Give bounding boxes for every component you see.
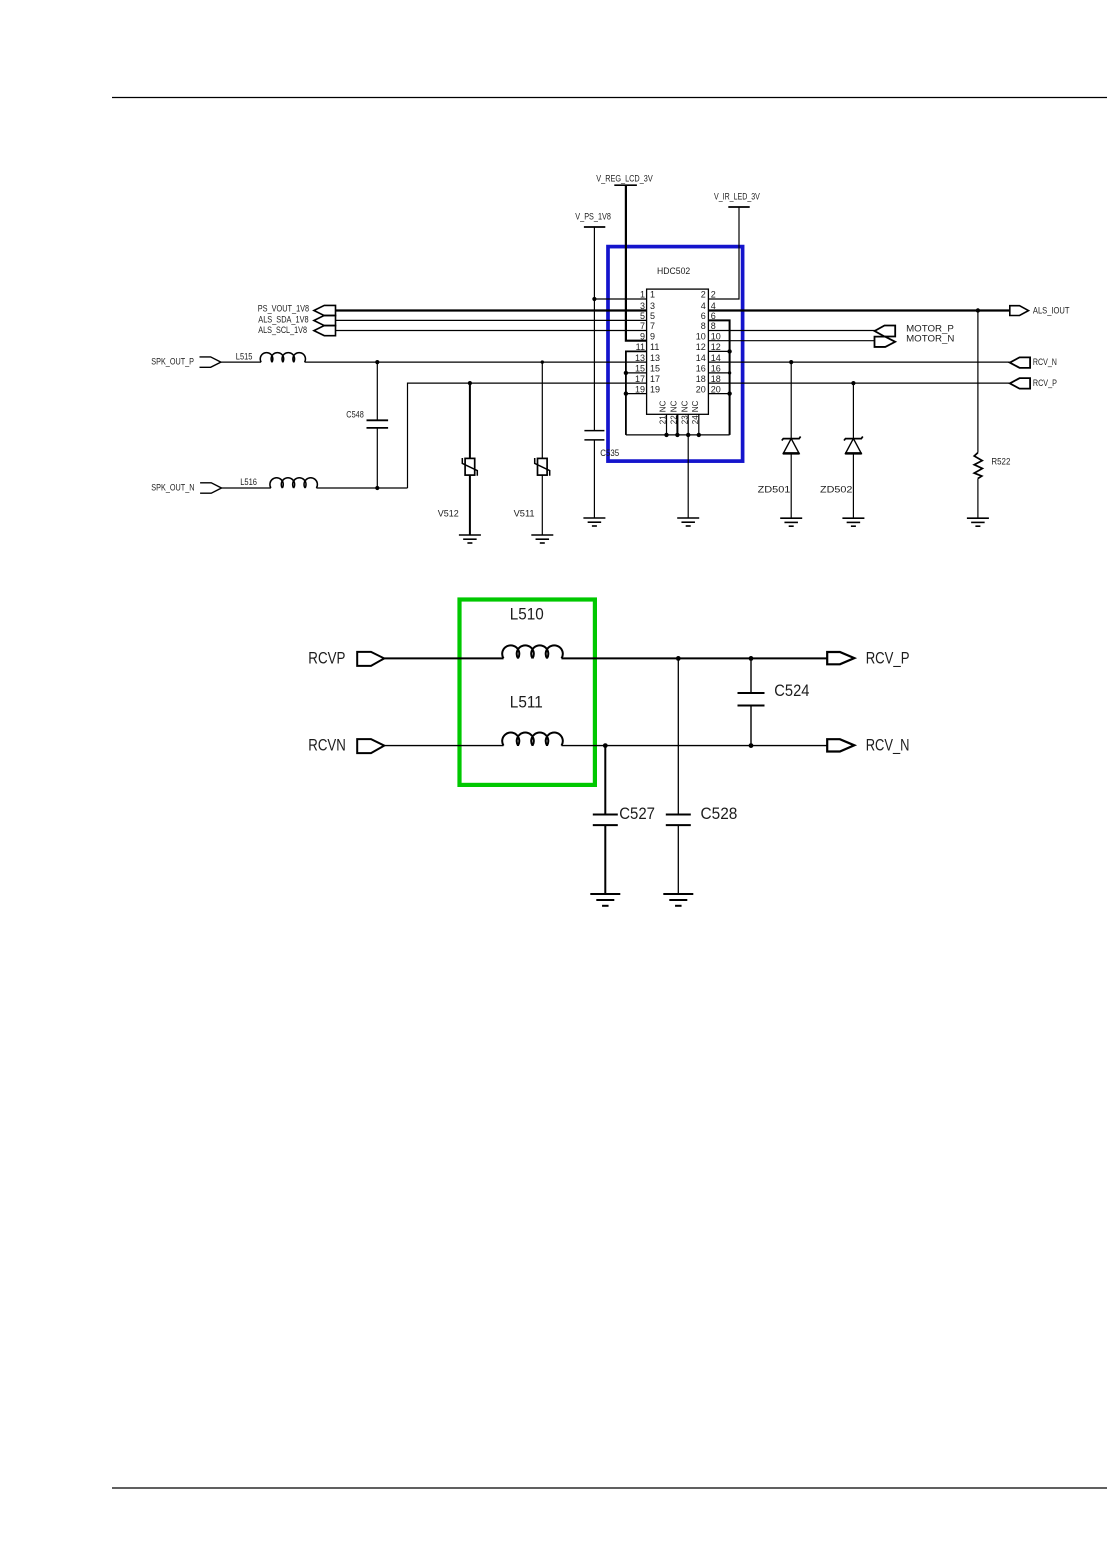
svg-text:NC: NC [691, 400, 700, 412]
svg-text:C527: C527 [619, 805, 655, 823]
svg-text:RCV_P: RCV_P [866, 649, 910, 667]
junction pin 20 / right bus [727, 391, 731, 395]
wire V_IR_LED_3V to pin 2 [708, 207, 739, 299]
svg-text:2: 2 [711, 290, 716, 300]
capacitor C528 plates [666, 814, 691, 816]
svg-text:12: 12 [711, 342, 721, 352]
svg-text:NC: NC [680, 400, 689, 412]
svg-text:17: 17 [650, 374, 660, 384]
svg-text:15: 15 [635, 364, 645, 374]
svg-text:V511: V511 [514, 508, 535, 518]
ground under V511 [531, 534, 553, 536]
blue highlight box around HDC502 [608, 247, 743, 462]
junction pin 22 / bus [675, 433, 679, 437]
svg-text:ALS_SDA_1V8: ALS_SDA_1V8 [258, 315, 308, 325]
ground under C527 [590, 893, 620, 895]
wire V_REG_LCD_3V to pin 9 (thick) [626, 185, 647, 341]
svg-text:ALS_IOUT: ALS_IOUT [1033, 306, 1070, 316]
svg-text:17: 17 [635, 374, 645, 384]
svg-text:13: 13 [650, 353, 660, 363]
port SPK_OUT_N arrow [200, 483, 221, 493]
capacitor C548 top lead [376, 362, 378, 420]
wire RCVP to L510 [384, 657, 503, 659]
junction RCV_N / ZD501 [789, 360, 793, 364]
wire pin 20 to right bus [708, 393, 729, 395]
svg-text:10: 10 [711, 331, 721, 341]
svg-text:16: 16 [711, 364, 721, 374]
svg-text:L510: L510 [510, 606, 544, 624]
svg-text:9: 9 [640, 331, 645, 341]
wire L511 to RCV_N [562, 745, 828, 747]
port RCV_N arrow (top) [1010, 357, 1030, 368]
svg-text:V512: V512 [438, 508, 459, 518]
junction RCVN / C524 [749, 743, 754, 748]
svg-text:C528: C528 [701, 805, 738, 823]
capacitor C524 plates [738, 692, 765, 694]
svg-text:7: 7 [640, 321, 645, 331]
capacitor C535 bottom lead [593, 440, 595, 518]
wire L510 to RCV_P [562, 657, 828, 659]
svg-text:5: 5 [640, 311, 645, 321]
wire pin 21 stub [666, 414, 668, 435]
svg-text:L516: L516 [240, 477, 257, 487]
capacitor C535 plates [584, 430, 604, 432]
junction SPK_OUT_N / C548 [375, 486, 379, 490]
wire L516 to elbow [316, 487, 407, 489]
port RCVN arrow [357, 739, 384, 753]
zener diode ZD502 [844, 437, 863, 441]
svg-text:L515: L515 [236, 351, 253, 361]
svg-text:8: 8 [711, 321, 716, 331]
inductor L515 [260, 353, 305, 362]
svg-text:20: 20 [711, 384, 721, 394]
capacitor C528 top lead [677, 658, 679, 814]
port ALS_SDA_1V8 arrow [314, 315, 336, 325]
varistor V511 [538, 458, 548, 475]
svg-text:2: 2 [701, 290, 706, 300]
capacitor C528 bottom lead [677, 825, 679, 894]
ground under IC [677, 517, 699, 519]
svg-text:6: 6 [701, 311, 706, 321]
svg-text:4: 4 [701, 301, 706, 311]
ground under V512 [459, 534, 481, 536]
resistor R522 top lead [977, 311, 979, 453]
capacitor C527 top lead [604, 746, 606, 815]
varistor V512 bottom lead [469, 475, 471, 535]
junction pin 21 / bus [664, 433, 668, 437]
ground under C528 [663, 893, 693, 895]
svg-text:RCVP: RCVP [308, 649, 345, 667]
svg-text:15: 15 [650, 364, 660, 374]
junction pin 16 / right bus [728, 371, 731, 374]
port ALS_IOUT arrow [1010, 306, 1029, 316]
svg-text:5: 5 [650, 311, 655, 321]
port MOTOR_N arrow [875, 337, 896, 347]
svg-text:18: 18 [711, 374, 721, 384]
port RCV_P arrow (top) [1010, 378, 1030, 389]
svg-text:HDC502: HDC502 [657, 266, 690, 276]
wire pin 12 to right bus [708, 350, 729, 352]
ground under R522 [967, 517, 989, 519]
wire pin 10 to MOTOR_N [708, 340, 874, 342]
wire pin 1 to V_PS [594, 298, 646, 300]
svg-text:V_IR_LED_3V: V_IR_LED_3V [714, 192, 760, 202]
svg-text:11: 11 [650, 342, 659, 352]
svg-text:9: 9 [650, 331, 655, 341]
capacitor C527 bottom lead [604, 825, 606, 894]
junction RCVN / C527 [603, 743, 608, 748]
wire right bus (pins 6,12,16,20) [708, 320, 729, 435]
svg-text:7: 7 [650, 321, 655, 331]
wire V_PS_1V8 down to C535 [593, 227, 595, 430]
junction ALS_IOUT / R522 [976, 308, 980, 312]
varistor V512 [465, 458, 475, 475]
junction RCVP / C528 [676, 656, 681, 661]
IC HDC502 body and pin numbers [647, 289, 709, 414]
junction pin 19 / left bus [624, 391, 628, 395]
junction V_PS / pin1 [592, 297, 596, 301]
svg-text:20: 20 [696, 384, 706, 394]
wire L515 to pin 13 [305, 361, 647, 363]
svg-text:10: 10 [696, 331, 706, 341]
junction pin 24 / bus [697, 433, 701, 437]
svg-text:RCV_N: RCV_N [1033, 357, 1057, 367]
wire ALS_SDA_1V8 to pin 5 [336, 319, 647, 321]
svg-text:NC: NC [659, 400, 668, 412]
ground under C535 [583, 517, 605, 519]
zener diode ZD501 bottom lead [790, 453, 792, 518]
power net V_REG_LCD_3V bar [614, 184, 637, 186]
svg-text:1: 1 [650, 290, 655, 300]
svg-text:12: 12 [696, 342, 706, 352]
svg-text:C524: C524 [774, 682, 809, 700]
junction RCVP / C524 [749, 656, 754, 661]
varistor V511 top lead [541, 362, 543, 458]
svg-text:V_REG_LCD_3V: V_REG_LCD_3V [596, 173, 652, 183]
wire SPK_OUT_N to L516 [222, 487, 271, 489]
svg-text:ZD501: ZD501 [758, 485, 791, 495]
ground under ZD501 [780, 517, 802, 519]
ground under ZD502 [842, 517, 864, 519]
junction SPK_OUT_P / V511 [541, 360, 544, 363]
wire pin 15 to left bus [626, 372, 647, 374]
resistor R522 bottom lead [977, 479, 979, 519]
inductor L516 [270, 478, 318, 488]
port MOTOR_P arrow [875, 326, 896, 337]
svg-text:SPK_OUT_N: SPK_OUT_N [151, 483, 194, 493]
wire SPK_OUT_P to L515 [221, 361, 261, 363]
power net V_IR_LED_3V bar [728, 206, 749, 208]
port RCV_P arrow (bottom) [827, 652, 854, 664]
svg-text:14: 14 [696, 353, 706, 363]
svg-text:ALS_SCL_1V8: ALS_SCL_1V8 [258, 325, 307, 335]
svg-text:NC: NC [670, 400, 679, 412]
svg-text:13: 13 [635, 353, 645, 363]
wire bus to ground [687, 435, 689, 518]
junction pin 23 / bus [686, 433, 690, 437]
green highlight box around L510/L511 [460, 600, 595, 785]
wire pin 19 to left bus [626, 393, 647, 395]
svg-text:8: 8 [701, 321, 706, 331]
port RCVP arrow [357, 652, 384, 666]
inductor L511 [502, 733, 563, 746]
wire pin 22 stub [676, 414, 678, 435]
varistor V511 bottom lead [541, 475, 543, 535]
wire SPK_OUT_N elbow up to pin 17 [408, 383, 647, 488]
svg-text:18: 18 [696, 374, 706, 384]
capacitor C548 bottom lead [376, 428, 378, 488]
varistor V512 top lead [469, 383, 471, 458]
zener diode ZD501 top lead [790, 362, 792, 439]
wire pin 18 to RCV_P [708, 382, 1009, 384]
capacitor C524 top lead [750, 658, 752, 693]
wire ALS_SCL_1V8 to pin 7 [336, 330, 647, 332]
capacitor C548 plates [367, 419, 389, 421]
svg-text:MOTOR_P: MOTOR_P [906, 323, 954, 333]
junction pin 15 / left bus [624, 371, 628, 375]
port ALS_SCL_1V8 arrow [314, 326, 336, 336]
svg-text:RCVN: RCVN [308, 737, 346, 755]
inductor L510 [502, 645, 563, 658]
svg-text:19: 19 [650, 384, 660, 394]
zener diode ZD501 [782, 437, 801, 441]
port RCV_N arrow (bottom) [827, 739, 854, 751]
wire pin 8 to MOTOR_P [708, 330, 875, 332]
svg-text:C535: C535 [600, 448, 619, 458]
junction SPK_OUT_N / V512 [468, 381, 472, 385]
port PS_VOUT_1V8 arrow [314, 305, 336, 315]
svg-text:16: 16 [696, 364, 706, 374]
resistor R522 [974, 453, 982, 479]
svg-text:MOTOR_N: MOTOR_N [906, 334, 954, 344]
svg-text:14: 14 [711, 353, 721, 363]
wire pin 4 to ALS_IOUT (thick) [708, 309, 1009, 311]
svg-text:3: 3 [640, 301, 645, 311]
svg-text:SPK_OUT_P: SPK_OUT_P [151, 357, 194, 367]
wire pin 16 to right bus [708, 372, 729, 374]
svg-text:19: 19 [635, 384, 645, 394]
wire RCVN to L511 [384, 745, 503, 747]
junction pin 12 / right bus [727, 349, 731, 353]
wire NC bottom bus [626, 434, 730, 436]
zener diode ZD502 bottom lead [852, 453, 854, 518]
svg-text:C548: C548 [346, 409, 364, 419]
wire pin 24 stub [698, 414, 700, 435]
svg-text:V_PS_1V8: V_PS_1V8 [575, 212, 611, 222]
capacitor C524 bottom lead [750, 706, 752, 746]
svg-text:RCV_P: RCV_P [1033, 378, 1057, 388]
zener diode ZD502 top lead [852, 383, 854, 439]
power net V_PS_1V8 bar [584, 226, 605, 228]
capacitor C527 plates [593, 814, 618, 816]
port SPK_OUT_P arrow [200, 357, 221, 367]
svg-text:PS_VOUT_1V8: PS_VOUT_1V8 [258, 303, 309, 313]
svg-text:1: 1 [640, 290, 645, 300]
wire pin 14 to RCV_N [708, 361, 1009, 363]
svg-text:3: 3 [650, 301, 655, 311]
svg-text:ZD502: ZD502 [820, 485, 852, 495]
svg-text:L511: L511 [510, 694, 543, 712]
wire PS_VOUT_1V8 to pin 3 (thick) [336, 309, 647, 311]
junction RCV_P / ZD502 [851, 381, 855, 385]
wire pin 23 stub [687, 414, 689, 435]
wire left bus (pins 11,15,19) [626, 351, 647, 435]
svg-text:RCV_N: RCV_N [866, 737, 910, 755]
junction SPK_OUT_P / C548 [375, 360, 379, 364]
svg-text:R522: R522 [991, 457, 1010, 467]
